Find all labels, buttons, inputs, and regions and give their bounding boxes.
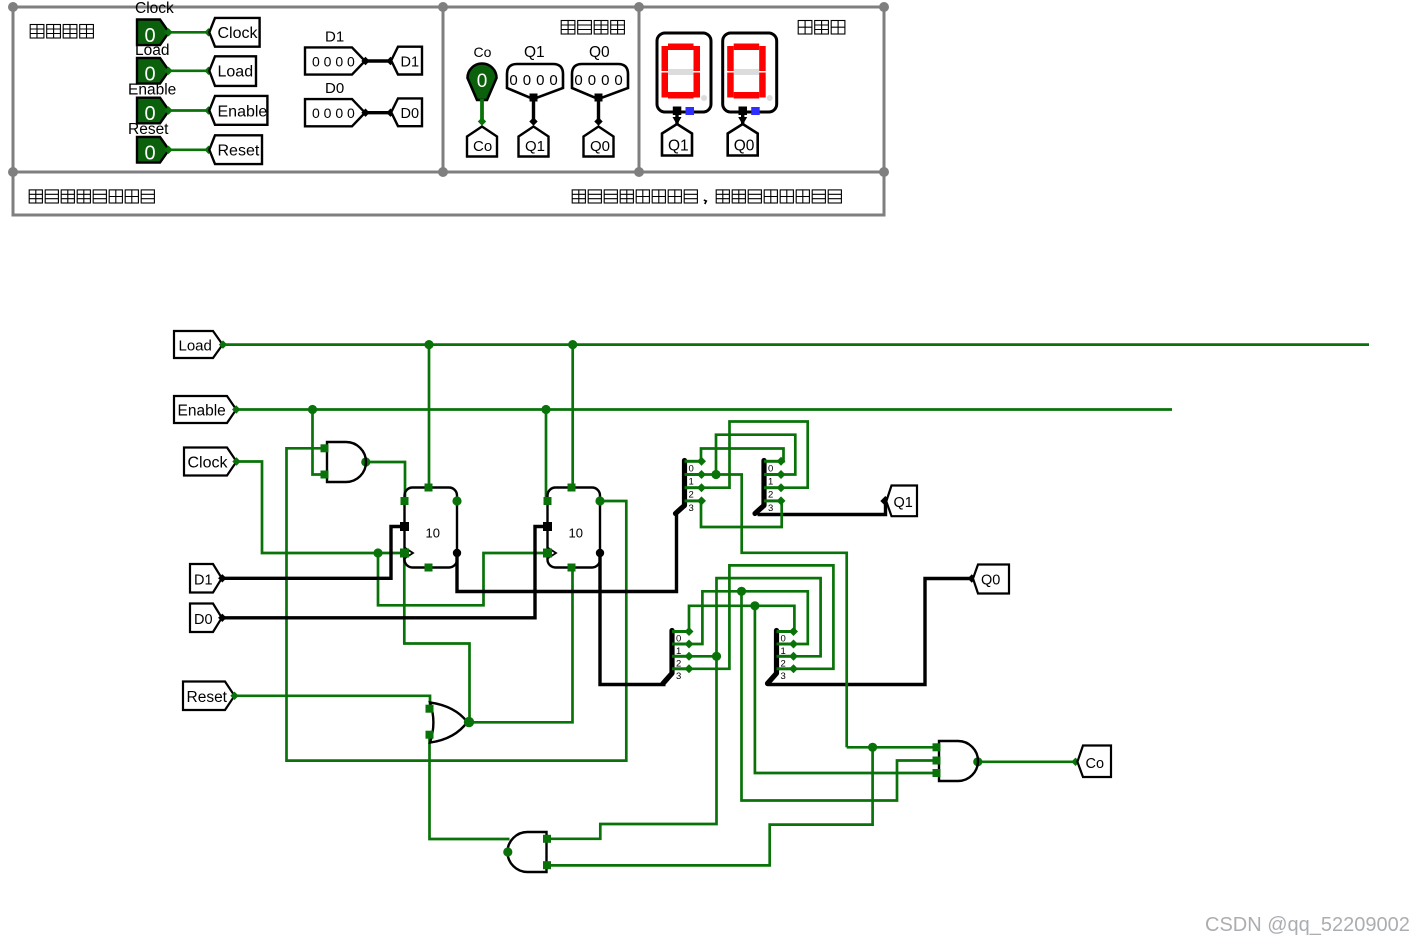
svg-text:D1: D1 [401, 55, 420, 71]
wire tap S3 bit0 down to AND U6 input C [755, 606, 937, 773]
wire Load drop to counter U1 top [428, 345, 431, 488]
tunnel Enable (panel) [209, 96, 267, 125]
svg-text:Co: Co [1086, 756, 1105, 772]
svg-text:Co: Co [473, 138, 492, 155]
splitter S1 (4-bit fanout) [676, 457, 707, 514]
svg-text:D1: D1 [325, 29, 344, 46]
wire S3 bit0 to S4 bit0 [689, 606, 794, 632]
tunnel Q1 (monitor, up-pointing) [662, 124, 692, 156]
tunnel D0 (schematic) [190, 604, 222, 633]
caption: warning text [572, 190, 841, 204]
tunnel Co (panel, up-pointing) [467, 127, 497, 157]
label: monitor section title 监控区 [798, 21, 845, 35]
input pin Load (1-bit, value 0) [137, 58, 169, 85]
splitter S4 (4-bit fanout) [768, 627, 799, 684]
svg-text:D0: D0 [401, 106, 420, 122]
svg-text:10: 10 [426, 526, 440, 541]
svg-text:Q1: Q1 [668, 138, 689, 155]
svg-text:Q1: Q1 [894, 495, 913, 511]
svg-text:Q0: Q0 [590, 138, 610, 155]
svg-text:1: 1 [689, 477, 694, 488]
node junction on S3 bit1 net [737, 587, 746, 596]
input pin Reset (1-bit, value 0) [137, 137, 169, 164]
node junction on S3 bit2 net [712, 652, 721, 661]
wire from pin Enable to tunnel [164, 106, 212, 114]
wire net: counter U2 carry to AND U3 input A [287, 448, 627, 760]
tunnel D1 (panel) [391, 47, 422, 75]
wire tap from S1 bit1 toward AND U6 input [716, 475, 847, 748]
bus wire from pin Q0 to tunnel [594, 101, 602, 126]
OR gate U4 (reset/load) [426, 702, 475, 742]
svg-text:D1: D1 [194, 573, 213, 589]
svg-text:0: 0 [689, 463, 694, 474]
tunnel Q1 (schematic) [886, 486, 917, 517]
input pin D0 (4-bit, value 0000) [305, 99, 365, 126]
tunnel Q0 (schematic) [973, 565, 1009, 594]
node junction on Load rail at x429 [424, 340, 433, 349]
bus wire from pin D1 to tunnel [361, 57, 394, 65]
tunnel Enable (schematic) [174, 396, 236, 423]
label: input pin section title 输入引脚 [30, 25, 93, 39]
node junction on S3 bit0 net [750, 601, 759, 610]
svg-text:Load: Load [135, 42, 169, 59]
svg-text:Q1: Q1 [525, 138, 545, 155]
panel junction dots [8, 2, 889, 177]
node junction on Enable rail at x312 [308, 405, 317, 414]
node AND U5 output [503, 847, 512, 856]
wire from pin Reset to tunnel [164, 146, 212, 154]
svg-text:3: 3 [768, 503, 773, 514]
wire from pin Clock to tunnel [164, 28, 212, 36]
wire Reset from tunnel to OR U4 input A [235, 696, 431, 709]
bus D0 from tunnel to counter U2 data input [223, 527, 547, 618]
svg-text:Q1: Q1 [524, 44, 545, 61]
tunnel Load (panel) [209, 56, 256, 86]
svg-text:Q0: Q0 [981, 573, 1000, 589]
input pin D1 (4-bit, value 0000) [305, 47, 365, 74]
wire net Load rail [223, 343, 1369, 346]
svg-text:Enable: Enable [178, 403, 226, 420]
tunnel Reset (panel) [209, 135, 262, 164]
bus counter U1 Q output to splitter S1 [457, 514, 677, 592]
svg-text:Q0: Q0 [734, 138, 755, 155]
tunnel D0 (panel) [391, 98, 422, 126]
wire from OR U4 input B down to AND U5 nose [430, 735, 510, 839]
node OR U4 output [464, 717, 474, 727]
svg-text:Enable: Enable [128, 82, 176, 99]
tunnel Load (schematic) [174, 331, 223, 358]
svg-text:10: 10 [569, 526, 583, 541]
svg-text:Clock: Clock [135, 0, 174, 17]
input pin Enable (1-bit, value 0) [137, 98, 169, 125]
bus splitter S2 to tunnel Q1 [758, 502, 886, 515]
bus counter U2 Q output to splitter S3 [600, 553, 666, 685]
svg-text:3: 3 [676, 671, 681, 682]
wire into AND U6 input A [847, 746, 937, 749]
counter U1 (modulus 10) [400, 484, 462, 572]
splitter S2 (4-bit fanout) [755, 457, 786, 514]
wire S3 bit2 to S4 bit2 [689, 578, 821, 656]
wire S3 bit1 to S4 bit1 [689, 591, 808, 644]
svg-text:0: 0 [144, 142, 155, 164]
svg-text:3: 3 [781, 671, 786, 682]
node AND U3 output [361, 457, 370, 466]
node junction on Load rail at x572 [568, 340, 577, 349]
wire S1 bit2 to S2 bit2 [701, 422, 808, 488]
counter U2 (modulus 10) [543, 484, 605, 572]
svg-text:0000: 0000 [509, 72, 562, 89]
svg-text:2: 2 [768, 490, 773, 501]
tunnel Reset (schematic) [183, 682, 235, 711]
svg-text:Enable: Enable [218, 103, 268, 120]
wire from OR output to counter U2 bottom pin [469, 568, 573, 723]
tunnel Clock (panel) [209, 18, 259, 47]
node junction before AND U6 input A [868, 743, 877, 752]
tunnel Clock (schematic) [184, 448, 237, 476]
svg-text:Load: Load [179, 338, 212, 355]
wire AND U3 output to counter U1 enable [366, 462, 405, 497]
wire from 7-segment Q1 input to tunnel [675, 115, 678, 124]
splitter S3 (4-bit fanout) [663, 627, 694, 684]
wire S1 bit0 to S2 bit0 [701, 449, 784, 462]
svg-text:0: 0 [477, 71, 488, 92]
7-segment display Q1 showing 0 [657, 33, 711, 115]
AND gate U6 (carry out Co) [933, 741, 979, 781]
wire from pin Co to tunnel Co [478, 99, 486, 126]
label: output pin section title 输出引脚 [561, 21, 624, 35]
svg-text:Reset: Reset [187, 689, 228, 706]
AND gate U3 (clock enable gating) [321, 442, 367, 482]
AND gate U5 (left-facing) [503, 832, 551, 872]
wire Clock from tunnel to counter U1 clock [237, 462, 403, 554]
output pin Q1 (4-bit, value 0000) [507, 64, 563, 102]
tunnel Co (schematic) [1077, 746, 1111, 778]
wire tap S3 bit2 down to AND U5 input A [548, 656, 717, 839]
svg-text:0 0 0 0: 0 0 0 0 [312, 105, 355, 121]
svg-text:Reset: Reset [218, 143, 260, 160]
bus wire from pin Q1 to tunnel [529, 101, 537, 126]
svg-text:Clock: Clock [188, 455, 229, 472]
svg-text:3: 3 [689, 503, 694, 514]
wire tap S3 bit1 down to AND U6 input B [742, 591, 937, 800]
svg-text:1: 1 [768, 477, 773, 488]
wire S1 bit3 to S2 bit3 [701, 501, 782, 527]
svg-text:2: 2 [689, 490, 694, 501]
panel frame: subcircuit appearance boxes [13, 7, 884, 215]
output pin Q0 (4-bit, value 0000) [572, 64, 628, 102]
wire Load drop to counter U2 top [571, 345, 574, 488]
wire from U1 clock pin down to OR output node [404, 556, 469, 722]
svg-text:CSDN @qq_52209002: CSDN @qq_52209002 [1205, 914, 1410, 936]
svg-text:0 0 0 0: 0 0 0 0 [312, 54, 355, 70]
node junction on Enable rail at x546 [541, 405, 550, 414]
wire net Enable rail [236, 408, 1172, 411]
wire AND U6 output to tunnel Co [978, 760, 1076, 763]
caption: circuit name [29, 190, 154, 203]
7-segment display Q0 showing 0 [723, 33, 777, 115]
svg-text:D0: D0 [194, 612, 213, 628]
wire Enable drop to AND U3 input B [313, 410, 323, 475]
bus splitter S4 to tunnel Q0 [768, 579, 972, 685]
input pin Clock (1-bit, value 0) [137, 20, 169, 47]
wire clock branch to counter U2 clock [378, 553, 546, 605]
wire S1 bit1 to S2 bit1 [701, 435, 795, 475]
tunnel Q1 (panel, up-pointing) [519, 127, 549, 157]
node junction on clock wire at x378 [373, 548, 382, 557]
svg-text:Clock: Clock [218, 25, 259, 42]
bus D1 from tunnel to counter U1 data input [223, 527, 404, 579]
svg-text:Co: Co [474, 44, 492, 60]
tunnel D1 (schematic) [190, 564, 222, 593]
node junction on S1 bit1 [711, 470, 720, 479]
wire from pin Load to tunnel [164, 67, 212, 75]
node AND U6 output [973, 757, 982, 766]
wire from 7-segment Q0 input to tunnel [741, 115, 744, 124]
wire S3 bit3 to S4 bit3 [689, 565, 833, 668]
svg-text:D0: D0 [325, 80, 344, 97]
svg-text:0000: 0000 [574, 72, 627, 89]
svg-text:0: 0 [768, 463, 773, 474]
output pin Co (1-bit round pin, value 0) [468, 63, 497, 100]
svg-text:Load: Load [218, 64, 254, 81]
wire from junction down to AND U5 input B [548, 747, 873, 865]
svg-text:Q0: Q0 [589, 44, 610, 61]
wire Enable drop to counter U2 enable [545, 410, 548, 501]
bus wire from pin D0 to tunnel [361, 109, 394, 117]
svg-text:Reset: Reset [128, 121, 169, 138]
tunnel Q0 (monitor, up-pointing) [728, 124, 758, 156]
tunnel Q0 (panel, up-pointing) [584, 127, 614, 157]
